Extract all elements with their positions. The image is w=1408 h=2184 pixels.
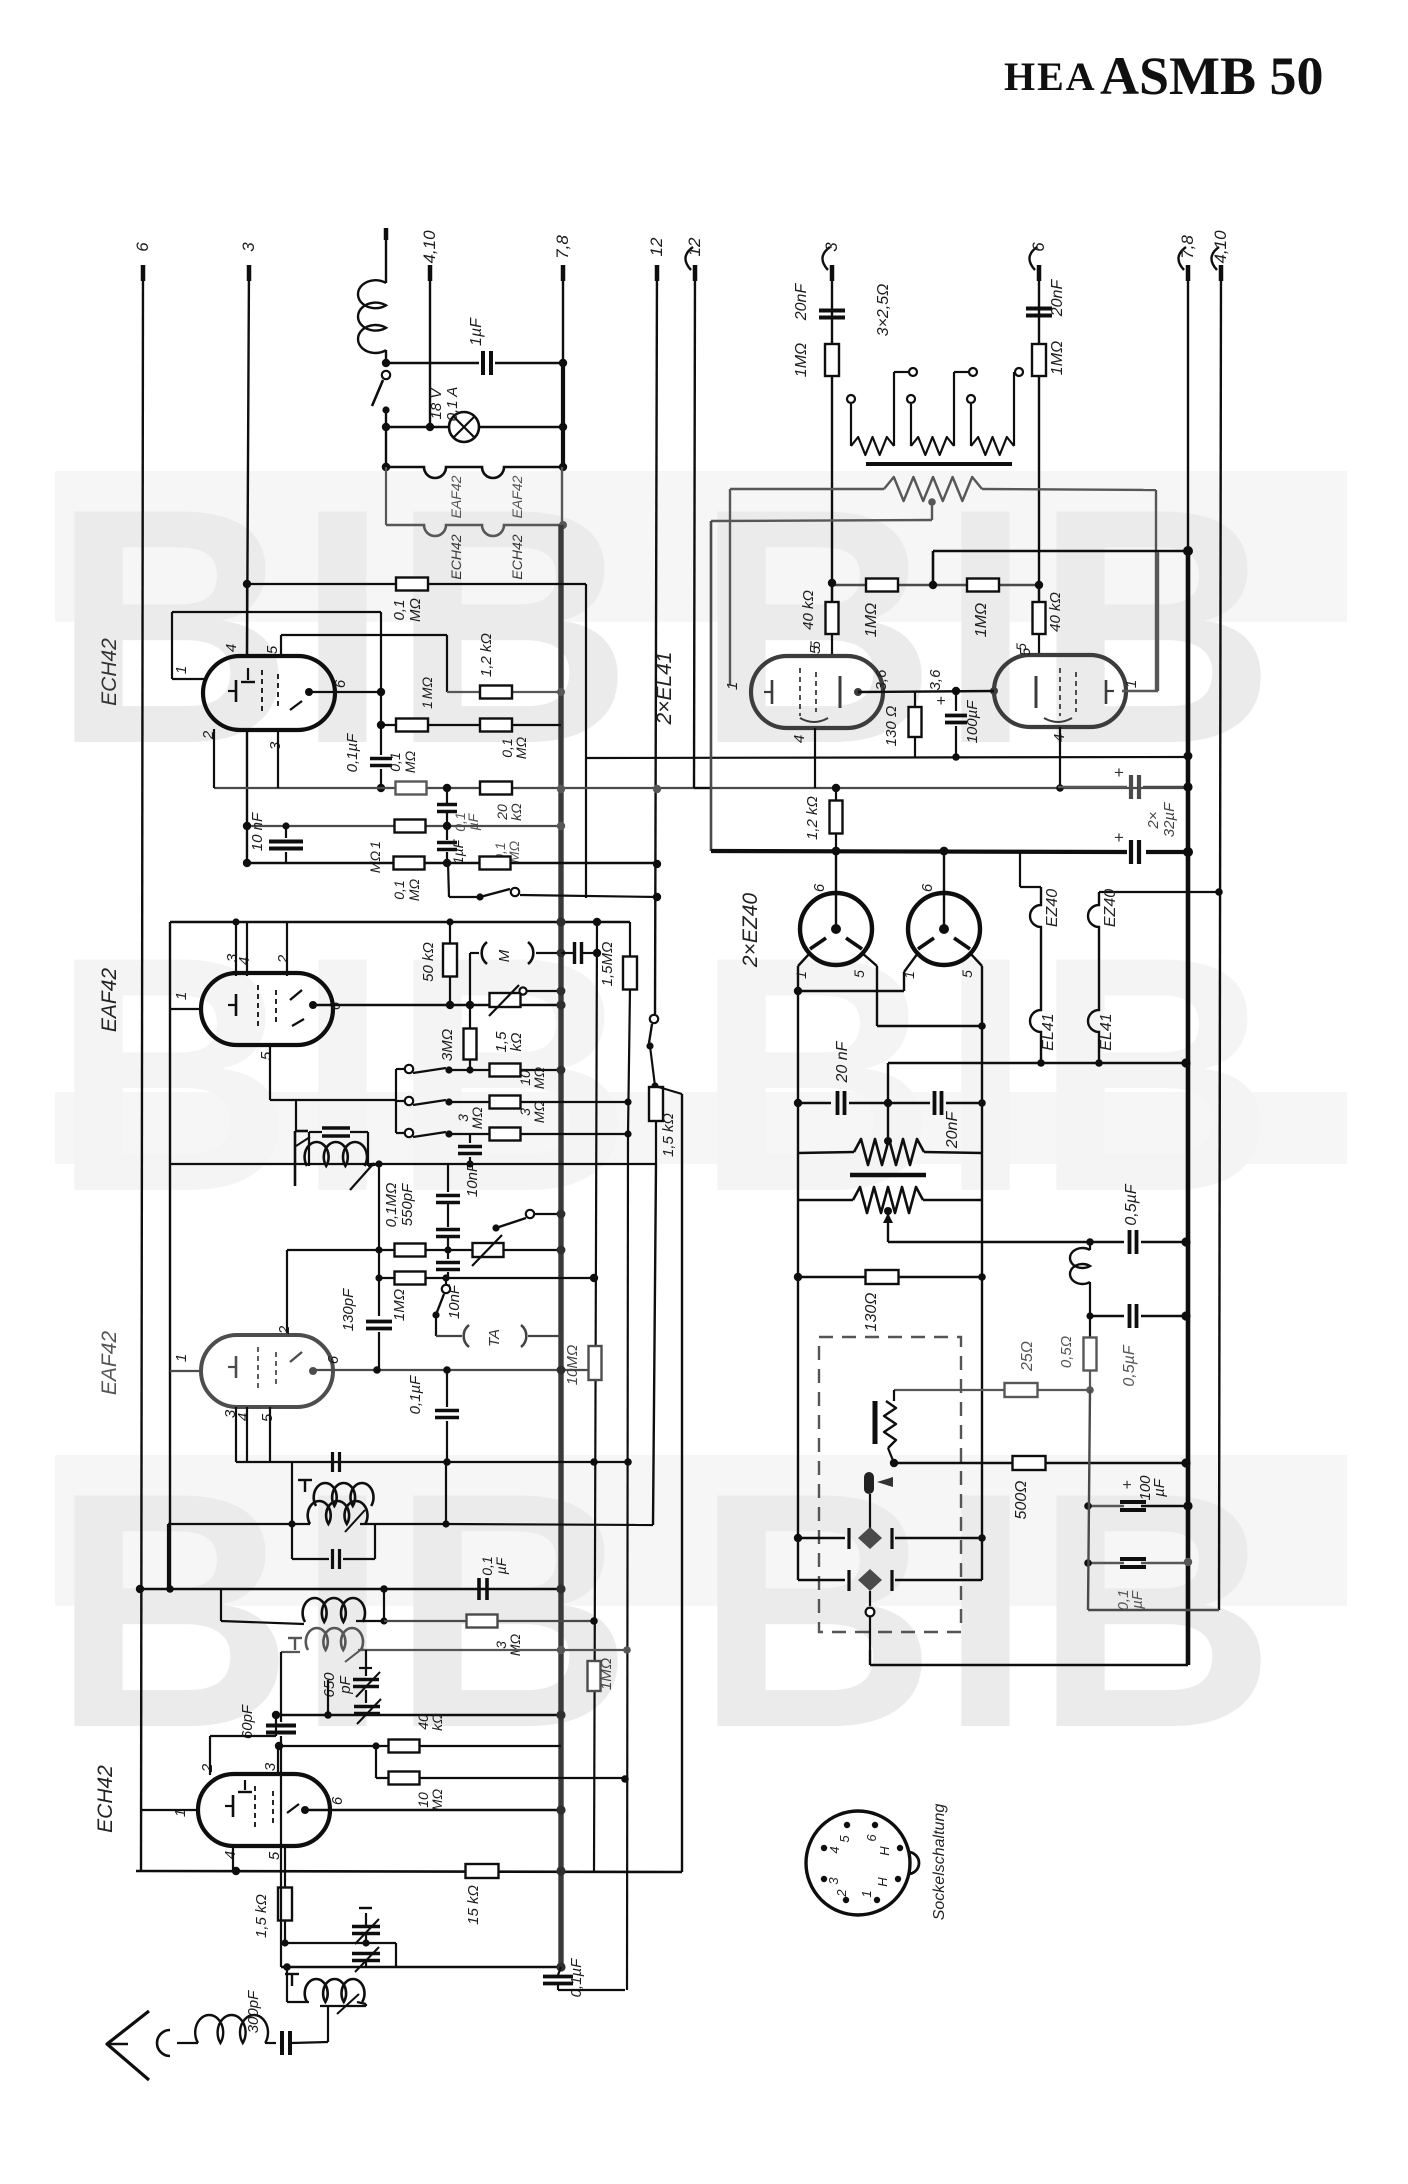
- resistor 0,1MOhm row584: [396, 578, 428, 591]
- svg-text:1MΩ: 1MΩ: [391, 1289, 408, 1321]
- output transformer primary: [854, 1139, 924, 1165]
- svg-text:18 V: 18 V: [428, 387, 445, 420]
- terminal 12 b: [693, 265, 698, 281]
- svg-text:ECH42: ECH42: [98, 638, 121, 706]
- speaker bottom exit: [869, 1650, 871, 1665]
- terminal 12 a: [655, 265, 660, 281]
- rail x=446 lower: [445, 1462, 447, 1524]
- antenna arc: [157, 2030, 170, 2056]
- ECH42 II internals: [254, 1786, 256, 1831]
- capacitor 10nF bank: [469, 1134, 471, 1143]
- anode wire: [309, 691, 381, 693]
- svg-text:2×EL41: 2×EL41: [653, 652, 676, 726]
- tube EAF42 I: [201, 973, 333, 1045]
- IF2 bottom cap: [291, 1524, 293, 1559]
- capacitor 20nF b: [888, 1102, 930, 1104]
- svg-text:1: 1: [793, 971, 809, 979]
- svg-text:650: 650: [321, 1672, 338, 1698]
- resistor 1,5MOhm: [629, 922, 631, 957]
- capacitor 0,1uF row1589: [477, 1578, 481, 1600]
- row y=1026: [877, 1025, 982, 1027]
- svg-text:2: 2: [276, 1325, 293, 1335]
- capacitor 100uF: [955, 691, 957, 711]
- svg-text:130 Ω: 130 Ω: [883, 706, 900, 747]
- row y=1277: [798, 1276, 982, 1278]
- pin1 wire: [170, 1008, 202, 1010]
- IF2 core arrow: [345, 1510, 365, 1532]
- speaker driver: [864, 1472, 874, 1494]
- svg-text:1: 1: [901, 971, 917, 979]
- IF1 cap loop: [308, 1132, 310, 1166]
- tube ECH42 I: [203, 656, 335, 730]
- right HT bus x=1188: [1187, 265, 1189, 551]
- svg-text:Sockelschaltung: Sockelschaltung: [931, 1804, 948, 1921]
- svg-text:550pF: 550pF: [399, 1183, 416, 1226]
- IF2 left loop: [291, 1462, 293, 1524]
- rail x=628 AVC: [628, 989, 630, 1134]
- row y=1164: [170, 1163, 656, 1165]
- osc coil2 arrow: [345, 1648, 363, 1662]
- svg-text:60pF: 60pF: [239, 1704, 256, 1739]
- svg-text:10nF: 10nF: [446, 1284, 463, 1319]
- svg-text:BIB: BIB: [695, 887, 1278, 1261]
- svg-text:20nF: 20nF: [1049, 279, 1066, 318]
- svg-text:0,1µF: 0,1µF: [568, 1958, 585, 1997]
- svg-text:7,8: 7,8: [1178, 235, 1197, 259]
- rail x=798: [797, 991, 799, 1580]
- IF1 core arrow: [350, 1163, 374, 1190]
- svg-text:1,2 kΩ: 1,2 kΩ: [804, 796, 821, 840]
- pin4 wires EL41: [814, 728, 816, 788]
- svg-text:6: 6: [864, 1834, 879, 1842]
- rail x=654 mid: [653, 1164, 656, 1525]
- row y=1102: [449, 1101, 628, 1103]
- watermark band 3: [55, 1455, 1347, 1606]
- M jack: [482, 942, 487, 964]
- EAF42 II internals: [257, 1347, 259, 1392]
- pin4 wire: [232, 1846, 234, 1871]
- row y=612: [172, 611, 381, 613]
- svg-text:kΩ: kΩ: [508, 803, 524, 821]
- row y=788 long: [214, 787, 1188, 789]
- resistor 3MOhm vert: [469, 1005, 471, 1029]
- svg-text:MΩ: MΩ: [469, 1106, 485, 1129]
- resistor 3MOhm osc: [467, 1615, 498, 1628]
- row y=1278: [379, 1277, 594, 1279]
- antenna symbol: [107, 2011, 149, 2080]
- svg-text:MΩ: MΩ: [507, 1633, 523, 1656]
- terminal 7,8 (left): [561, 265, 566, 281]
- svg-text:MΩ: MΩ: [531, 1066, 547, 1089]
- capacitor 20nF on 6: [1026, 307, 1052, 311]
- row y=922: [170, 921, 630, 923]
- switch bank rail: [395, 1069, 397, 1133]
- svg-text:50 kΩ: 50 kΩ: [420, 942, 437, 982]
- antenna series coil: [195, 2015, 268, 2043]
- tube EAF42 II: [201, 1335, 333, 1407]
- tuning cap B: [352, 1952, 380, 1956]
- capacitor 130pF: [366, 1320, 392, 1324]
- resistor 40kOhm b: [1038, 585, 1041, 602]
- svg-text:3MΩ: 3MΩ: [439, 1029, 456, 1061]
- row y=1070: [449, 1069, 561, 1071]
- heater chain gray ECH42 EAF42: [386, 525, 563, 536]
- far right switch+1,5k chain: [655, 265, 657, 1014]
- row y=1250: [287, 1249, 561, 1251]
- svg-text:µF: µF: [493, 1556, 509, 1574]
- tone pot: [473, 1243, 504, 1257]
- svg-text:0,5Ω: 0,5Ω: [1058, 1336, 1075, 1368]
- antenna cap 300pF: [280, 2031, 284, 2055]
- osc coil2 T: [294, 1638, 296, 1650]
- resistor 40kOhm row1746: [389, 1740, 420, 1753]
- EZ40 I cathodes: [810, 938, 826, 949]
- tube ECH42 II: [198, 1774, 330, 1846]
- svg-text:kΩ: kΩ: [429, 1713, 445, 1731]
- rail x=832 top: [831, 265, 833, 583]
- capacitor 10nF: [285, 826, 287, 838]
- svg-text:H: H: [877, 1846, 892, 1856]
- svg-text:2×EZ40: 2×EZ40: [739, 893, 762, 968]
- IF2 coil secondary: [314, 1483, 374, 1506]
- junction gray: [557, 785, 565, 793]
- svg-text:MΩ: MΩ: [531, 1100, 547, 1123]
- svg-text:µF: µF: [1129, 1590, 1146, 1609]
- row y=1715: [276, 1714, 561, 1717]
- dial lamp 18V 0,1A: [449, 412, 479, 442]
- svg-text:5: 5: [1017, 647, 1034, 656]
- cap 550 to row1278: [447, 1250, 449, 1259]
- svg-text:10nF: 10nF: [464, 1162, 481, 1197]
- row y=757 bottom EL41: [952, 753, 960, 761]
- wire: [385, 350, 387, 363]
- speaker pot gray: [884, 477, 982, 501]
- svg-text:1µF: 1µF: [468, 317, 485, 346]
- svg-text:0,1: 0,1: [391, 600, 408, 621]
- svg-text:+: +: [1122, 1477, 1131, 1494]
- rail x=287 pin2: [286, 1250, 288, 1336]
- svg-text:BIB: BIB: [52, 887, 635, 1261]
- svg-text:10MΩ: 10MΩ: [564, 1345, 581, 1386]
- IF1 left lead: [295, 1100, 297, 1131]
- resistor 130Ohm out: [866, 1270, 899, 1284]
- pin3 wire: [277, 1746, 279, 1775]
- row 25 Ohm gray: [894, 1389, 1013, 1391]
- wire rail x=247 lower: [246, 729, 248, 863]
- svg-text:3,6: 3,6: [873, 669, 890, 691]
- svg-text:0,1MΩ: 0,1MΩ: [383, 1183, 400, 1228]
- svg-text:BIB: BIB: [52, 1423, 635, 1797]
- rail x=170: [169, 922, 171, 1589]
- wire rail x=247 upper: [247, 265, 249, 657]
- svg-text:300pF: 300pF: [245, 1990, 262, 2033]
- row y=1967 AVC: [281, 1966, 561, 1969]
- row y=1589: [137, 1588, 561, 1590]
- pin5 wire EAF42 I: [269, 1045, 271, 1100]
- pot left lead: [730, 488, 884, 490]
- svg-text:MΩ: MΩ: [513, 736, 529, 759]
- svg-text:130pF: 130pF: [340, 1288, 357, 1331]
- pin2 wire: [213, 729, 215, 788]
- osc coil 1: [303, 1598, 365, 1622]
- EZ40 leads: [798, 953, 810, 966]
- svg-text:5: 5: [264, 645, 281, 654]
- resistor 40kOhm a: [831, 583, 834, 602]
- diode row 1: [798, 1537, 845, 1539]
- capacitor 0,1uF anode: [370, 757, 392, 761]
- terminal 6 (right): [1037, 265, 1042, 281]
- svg-text:EZ40: EZ40: [1102, 889, 1119, 927]
- svg-text:4: 4: [235, 1413, 252, 1421]
- tube EL41 I: [751, 656, 883, 728]
- svg-text:5: 5: [259, 1413, 276, 1422]
- padder 650pF: [365, 1650, 367, 1676]
- resistor 1MOhm row826: [395, 820, 426, 833]
- svg-text:4: 4: [791, 735, 808, 743]
- terminal 3 (right): [830, 265, 835, 281]
- resistor 1MOhm a: [866, 579, 898, 592]
- speaker dashed box: [819, 1337, 961, 1632]
- terminal12b rail: [694, 265, 695, 788]
- svg-text:+: +: [1114, 828, 1124, 847]
- selector bar: [866, 462, 1012, 466]
- rail x=384: [383, 1589, 385, 1621]
- svg-text:6: 6: [332, 679, 349, 688]
- rail x=381: [380, 612, 382, 755]
- IF2 T mark: [304, 1480, 306, 1492]
- capacitor 0,1uF col447b: [446, 1370, 448, 1407]
- secondary tap: [884, 1207, 892, 1215]
- EL41 II internals: [1059, 668, 1061, 716]
- terminal coil line arrow: [384, 228, 389, 240]
- svg-text:1: 1: [724, 682, 741, 690]
- anode row y=691: [858, 691, 994, 692]
- output transformer secondary: [853, 1187, 923, 1213]
- svg-text:5: 5: [959, 970, 975, 978]
- resistor 0,1MOhm row863b: [480, 857, 511, 870]
- row y=851 thick: [711, 851, 1127, 852]
- capacitor 0,5uF b: [1090, 1315, 1124, 1317]
- capacitor 20nF a: [798, 1102, 831, 1104]
- rail x=1219 (4,10): [1219, 265, 1221, 1610]
- svg-text:1,5 kΩ: 1,5 kΩ: [660, 1113, 677, 1157]
- svg-text:5: 5: [258, 1051, 275, 1060]
- svg-text:1µF: 1µF: [450, 838, 466, 864]
- anode row y=1370: [313, 1369, 594, 1371]
- pin wires top: [235, 922, 237, 976]
- svg-text:2: 2: [275, 954, 292, 964]
- resistor 0,1MOhm row788a: [396, 782, 427, 795]
- svg-text:2×: 2×: [1145, 811, 1162, 829]
- diode row 2: [798, 1579, 845, 1581]
- terminal 4,10 (left): [428, 265, 433, 281]
- rail x=396 low: [395, 1943, 397, 1967]
- resistor 10MOhm row1778: [389, 1772, 420, 1785]
- svg-text:+: +: [1114, 763, 1124, 782]
- svg-text:6: 6: [325, 1355, 342, 1364]
- socket pins: [844, 1822, 850, 1828]
- resistor 1,2kOhm cathode: [835, 788, 837, 801]
- mid switch: [526, 1210, 534, 1218]
- svg-text:4,10: 4,10: [420, 230, 439, 264]
- pin1 wire: [141, 1809, 198, 1811]
- svg-text:MΩ: MΩ: [429, 1788, 445, 1811]
- svg-text:EZ40: EZ40: [1044, 889, 1061, 927]
- watermark band 1: [55, 471, 1347, 622]
- antenna coil left: [287, 2001, 309, 2003]
- rail x=1039 top: [1038, 265, 1040, 585]
- svg-text:3: 3: [239, 242, 258, 252]
- rail x=379: [378, 1164, 380, 1316]
- resistor 10MOhm rail594: [589, 1346, 602, 1380]
- capacitor 0,1uF row1462area: [446, 1461, 448, 1463]
- mains input coil: [358, 280, 386, 353]
- svg-text:pF: pF: [337, 1675, 354, 1694]
- switch bank 3: [396, 1132, 404, 1134]
- rail 7,8 left: [562, 265, 564, 363]
- terminal 6 (left): [141, 265, 146, 281]
- svg-text:4: 4: [223, 644, 240, 652]
- capacitor M: [573, 942, 576, 964]
- svg-text:20nF: 20nF: [793, 283, 810, 322]
- antenna coil T: [291, 1974, 293, 1986]
- svg-text:6: 6: [811, 883, 828, 892]
- svg-text:6: 6: [329, 1796, 346, 1805]
- EL41 II right lead: [1122, 690, 1158, 692]
- screen row 1,2kOhm: [447, 691, 561, 693]
- svg-text:0,1µF: 0,1µF: [344, 733, 361, 772]
- IF1 right lead: [368, 1164, 379, 1166]
- svg-text:1MΩ: 1MΩ: [863, 603, 880, 637]
- osc wire right: [356, 1620, 384, 1622]
- TA jack: [464, 1325, 469, 1347]
- svg-text:4: 4: [222, 1851, 239, 1859]
- EZ40 II cathodes: [918, 938, 934, 949]
- heater chain black ECH42 EAF42: [386, 467, 563, 478]
- choke to speaker: [1070, 1248, 1090, 1284]
- svg-text:3: 3: [822, 242, 841, 252]
- dial lamp wire: [386, 426, 449, 428]
- osc coil row y=1621: [221, 1621, 304, 1624]
- EAF42 I internals: [257, 985, 259, 1030]
- speaker switch circle: [869, 1591, 871, 1606]
- antenna coil: [305, 1979, 365, 2002]
- resistor 130Ohm: [914, 691, 916, 708]
- svg-text:5: 5: [807, 645, 824, 654]
- resistor 50kOhm: [449, 922, 451, 944]
- pot wiper: [928, 498, 936, 506]
- row y=826: [247, 825, 561, 827]
- svg-text:0,1 A: 0,1 A: [444, 387, 461, 421]
- svg-text:1,2 kΩ: 1,2 kΩ: [478, 633, 495, 677]
- svg-text:1MΩ: 1MΩ: [973, 603, 990, 637]
- svg-text:µF: µF: [465, 812, 481, 830]
- resistor 0,1MOhm row863a: [394, 857, 425, 870]
- resistor 1MOhm rail594: [588, 1661, 601, 1691]
- resistor 1MOhm on 6: [1032, 344, 1046, 376]
- IF1 coil: [305, 1142, 367, 1166]
- main gray HT bus x=561: [561, 467, 563, 525]
- osc coil 2 gray: [306, 1628, 363, 1650]
- capacitor 0,5uF a: [1090, 1241, 1124, 1243]
- svg-text:100µF: 100µF: [964, 700, 981, 744]
- svg-text:20nF: 20nF: [944, 1111, 961, 1150]
- svg-text:1: 1: [859, 1890, 874, 1897]
- capacitor 20nF on 3: [819, 309, 845, 313]
- svg-text:3: 3: [826, 1877, 841, 1885]
- row y=1524: [168, 1523, 292, 1525]
- svg-text:MΩ: MΩ: [419, 676, 435, 699]
- svg-text:1MΩ: 1MΩ: [1049, 341, 1066, 375]
- row y=991: [798, 990, 904, 992]
- svg-text:15 kΩ: 15 kΩ: [465, 1885, 482, 1925]
- svg-text:3×2,5Ω: 3×2,5Ω: [875, 284, 892, 337]
- svg-text:1: 1: [419, 701, 435, 709]
- resistor 1MOhm row725: [396, 719, 428, 732]
- resistor 20kOhm row788b: [480, 782, 512, 795]
- capacitor 60pF: [280, 1715, 282, 1722]
- svg-text:6: 6: [1029, 242, 1048, 252]
- switch bank 2: [396, 1100, 404, 1102]
- svg-text:0,1µF: 0,1µF: [407, 1375, 424, 1414]
- svg-text:1,5MΩ: 1,5MΩ: [599, 942, 616, 987]
- svg-text:0,1: 0,1: [387, 752, 403, 771]
- svg-text:3: 3: [267, 741, 284, 750]
- svg-text:12: 12: [647, 237, 666, 256]
- svg-text:1MΩ: 1MΩ: [793, 343, 810, 377]
- M jack leads: [470, 952, 479, 954]
- anode row y=1005: [313, 1004, 561, 1006]
- capacitor 1uF col447: [446, 826, 448, 840]
- svg-text:0,5µF: 0,5µF: [1121, 1344, 1138, 1386]
- pin5 wire: [280, 635, 282, 657]
- EZ40 II feed: [943, 851, 945, 929]
- row y=1943: [281, 1942, 396, 1944]
- resistor 0,5 Ohm: [1084, 1338, 1097, 1371]
- svg-text:40 kΩ: 40 kΩ: [800, 590, 817, 630]
- antenna coil right: [357, 2002, 366, 2004]
- svg-text:ASMB 50: ASMB 50: [1100, 46, 1324, 106]
- svg-text:2: 2: [199, 1763, 216, 1773]
- watermark band 2 faint: [55, 1092, 1347, 1164]
- capacitor 0,1uF speaker: [1088, 1562, 1124, 1564]
- IF transformer 1 can: [294, 1131, 297, 1186]
- resistor 1,5kOhm right: [649, 1087, 663, 1121]
- svg-text:1MΩ: 1MΩ: [598, 1658, 615, 1690]
- svg-text:H: H: [875, 1877, 890, 1887]
- rail x=328 ant: [327, 2006, 329, 2042]
- svg-text:TA: TA: [486, 1329, 503, 1347]
- tube EL41 II: [994, 655, 1126, 727]
- svg-text:5: 5: [837, 1835, 852, 1843]
- capacitor 0,1uF bottom: [558, 1967, 561, 1975]
- pin2 wire: [209, 1736, 211, 1775]
- svg-text:EAF42: EAF42: [509, 475, 525, 518]
- row y=1134: [449, 1133, 628, 1135]
- pin1 wire: [172, 678, 204, 680]
- svg-text:12: 12: [685, 237, 704, 256]
- svg-text:ECH42: ECH42: [509, 534, 525, 579]
- svg-text:20 nF: 20 nF: [834, 1040, 851, 1083]
- volume pot: [490, 993, 521, 1007]
- row y=1746: [279, 1745, 561, 1747]
- svg-text:MΩ: MΩ: [406, 878, 422, 901]
- EZ40 heater chain 1: [1019, 852, 1021, 887]
- resistor 10MOhm row1070: [490, 1064, 521, 1077]
- capacitor 100uF speaker: [1088, 1505, 1124, 1507]
- svg-text:4,10: 4,10: [1211, 230, 1230, 264]
- row y=1462: [236, 1461, 628, 1463]
